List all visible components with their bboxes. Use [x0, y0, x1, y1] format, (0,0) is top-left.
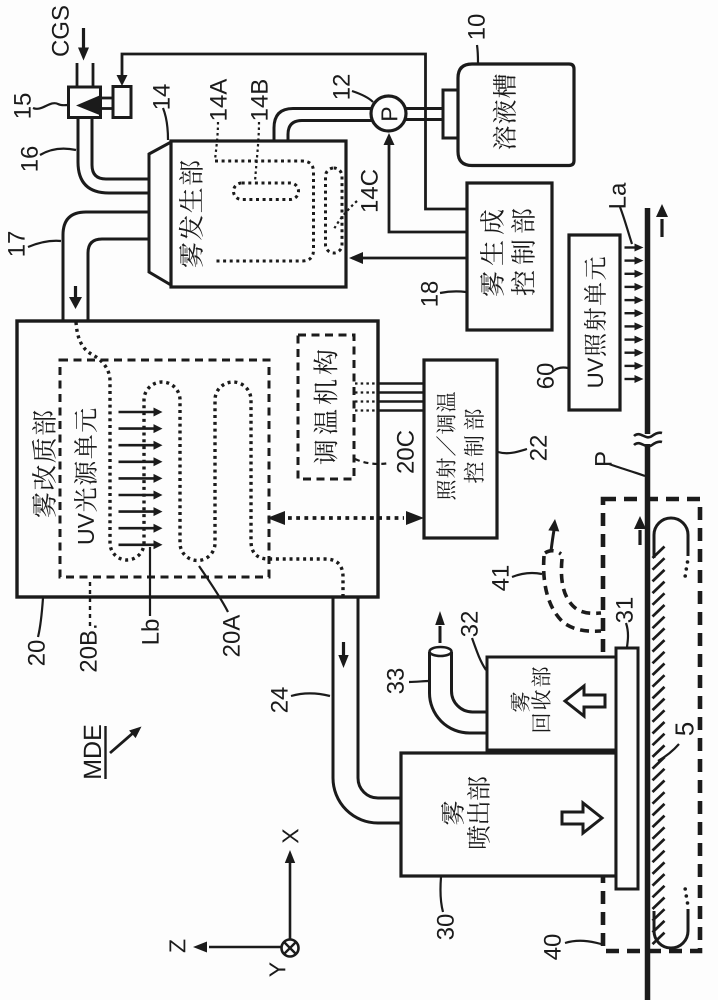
label 22: [530, 436, 547, 460]
tank 10 body: [458, 64, 574, 166]
label 14C: [361, 170, 378, 211]
mist ejection box 30: [401, 753, 616, 876]
dashed temperature unit 20C: [298, 335, 354, 479]
text 雾(32): [510, 692, 529, 712]
label 5: [676, 723, 694, 735]
belt top hairpin dots: [683, 560, 689, 578]
label 31: [616, 598, 633, 623]
label La: [609, 183, 626, 208]
dashed enclosure 40: [603, 499, 700, 951]
label 60: [537, 364, 554, 388]
conveyor belt 5 hatching: [653, 547, 665, 945]
CGS flow arrow: [82, 28, 85, 48]
text 回收部: [531, 667, 550, 731]
pipe 41 flow arrow: [551, 530, 554, 551]
label 32: [461, 612, 478, 637]
label 33: [387, 669, 404, 694]
label 24: [271, 687, 288, 712]
substrate motion arrow top: [660, 219, 663, 237]
pipe 17: [63, 212, 150, 320]
label 40: [544, 935, 561, 960]
text UV光源单元: [74, 409, 97, 544]
label 18: [421, 282, 438, 306]
valve-pilot link: [100, 98, 113, 109]
pipe 16: [78, 118, 150, 193]
text 控制部: [464, 409, 484, 483]
dotted heater 14A: [215, 161, 314, 261]
MDE arrow: [110, 733, 133, 753]
pipe from pump 12 to tank 10: [404, 109, 444, 120]
tank 10 neck: [443, 90, 458, 138]
belt bottom hairpin: [654, 909, 688, 948]
label 20: [28, 641, 45, 666]
UV rays Lb arrows: [119, 408, 163, 550]
mist generator 14 hopper: [149, 142, 171, 285]
text 调温机构: [313, 350, 337, 464]
text UV照射单元: [584, 257, 606, 386]
UV rays La arrows: [625, 244, 644, 384]
label Lb: [141, 620, 159, 644]
text 雾(30): [441, 801, 464, 824]
dotted element 14B: [234, 183, 299, 200]
mist recovery box 32: [487, 657, 616, 750]
label 20A: [223, 615, 240, 656]
label 10: [468, 15, 485, 39]
label 20C: [397, 431, 414, 473]
text 喷出部: [467, 777, 490, 848]
mist modifier box 20: [17, 321, 378, 597]
label 14B: [251, 80, 268, 120]
ejection flow hollow arrow: [562, 803, 602, 833]
belt bottom hairpin dots: [683, 887, 689, 905]
pipe 33: [430, 652, 489, 733]
label 16: [21, 147, 38, 171]
valve 15 triangle: [76, 96, 100, 116]
text 照射/调温: [436, 392, 455, 500]
dashed UV source unit 20B: [60, 360, 269, 577]
text 控制部: [511, 209, 535, 296]
label 41: [492, 566, 509, 591]
dashed pipe 41: [544, 551, 601, 632]
substrate motion arrow bottom: [638, 530, 641, 545]
text 溶液槽: [493, 74, 516, 149]
pipe from mist generator 14 to pump 12: [274, 109, 372, 143]
wire 18 to pump 12: [389, 136, 466, 232]
MDE label: [84, 725, 101, 777]
label 14: [153, 84, 170, 108]
wires 20C to controller 22: [355, 384, 424, 411]
wire from controller 18 to valve 15: [122, 54, 466, 209]
dotted mist path 20A serpentine: [76, 322, 343, 596]
valve pilot box: [113, 87, 131, 118]
mist generator box 14: [171, 141, 346, 287]
pipe 33 flow arrow: [439, 626, 442, 643]
label 15: [14, 94, 31, 118]
text 雾发生部: [179, 161, 203, 267]
label 30: [437, 915, 454, 940]
UV irradiation box 60: [569, 235, 620, 410]
text 雾生成: [480, 210, 504, 296]
pump 12: [371, 96, 406, 131]
valve 15 body: [69, 87, 101, 118]
text 雾改质部: [32, 411, 56, 517]
pipe 17 flow arrow: [74, 286, 77, 298]
pipe 33 mouth: [430, 647, 452, 656]
dotted control link 20-22: [288, 516, 404, 520]
axis Z: [209, 946, 283, 949]
label 17: [8, 232, 25, 256]
belt top hairpin: [654, 518, 688, 558]
label P: [595, 452, 612, 465]
label 14A: [210, 79, 227, 120]
label 20B: [80, 626, 97, 672]
substrate P line: [645, 208, 651, 1000]
label 12: [333, 75, 350, 99]
CGS inlet pipe: [77, 63, 93, 87]
substrate break symbol: [634, 433, 662, 447]
dotted element 14C: [326, 168, 343, 253]
controller box 18: [467, 183, 552, 330]
controller box 22: [424, 360, 497, 538]
wire 18 to generator 14: [352, 257, 466, 260]
axis Y symbol: [282, 940, 299, 957]
guide plate 31: [616, 648, 638, 889]
pipe 24 flow arrow: [342, 642, 345, 656]
pipe 24: [333, 596, 402, 823]
CGS label: [52, 6, 69, 56]
axis X: [289, 862, 292, 939]
recovery flow hollow arrow: [565, 686, 605, 716]
